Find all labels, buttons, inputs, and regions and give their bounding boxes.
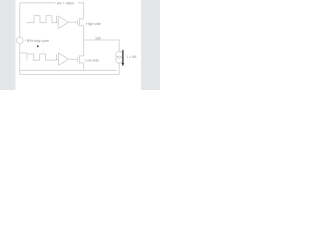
square wave icon (high side input) xyxy=(26,16,57,23)
svg-text:I = 8A: I = 8A xyxy=(127,55,137,59)
right gray margin band xyxy=(141,0,160,90)
page background xyxy=(0,0,160,90)
white patch behind HV label xyxy=(56,0,79,5)
svg-text:SW: SW xyxy=(95,37,101,41)
square wave icon (low side input) xyxy=(27,54,57,60)
node SW rail wire xyxy=(84,40,120,52)
svg-text:* 50% duty cycle: * 50% duty cycle xyxy=(25,39,50,43)
wire: U2 output to Q2 gate xyxy=(69,58,78,60)
wire: HV top rail from left bus corner to high-side drain drop xyxy=(20,3,84,37)
current source I1 (two overlapping circles) xyxy=(116,51,123,58)
wire: feed from left bus to low-side waveform start xyxy=(20,52,27,54)
wire: left bus from source V1 bottom down to lower return rail xyxy=(19,44,21,75)
op-amp U1 high-side gate driver buffer triangle xyxy=(58,16,68,29)
transistor Q1 high-side MOSFET xyxy=(77,3,83,40)
transistor Q2 low-side MOSFET xyxy=(77,40,83,70)
asterisk mark above low-side waveform xyxy=(37,46,39,48)
lower return rail wire xyxy=(20,74,119,76)
left gray margin band xyxy=(0,0,15,90)
svg-text:Low side: Low side xyxy=(85,58,99,62)
wire: I1 bottom lead down to return rail xyxy=(118,63,120,74)
wire: into high-side buffer xyxy=(56,21,58,23)
ground rail (low-side source return) xyxy=(20,69,117,71)
voltage source V1 (circle) xyxy=(17,37,24,44)
svg-text:High side: High side xyxy=(86,22,101,26)
svg-text:HV = 480V: HV = 480V xyxy=(57,2,75,6)
wire: U1 output to Q1 gate xyxy=(69,21,78,23)
current direction arrow for I1 xyxy=(122,50,125,67)
wire: into low-side buffer xyxy=(57,59,59,61)
op-amp U2 low-side gate driver buffer triangle xyxy=(59,53,69,65)
